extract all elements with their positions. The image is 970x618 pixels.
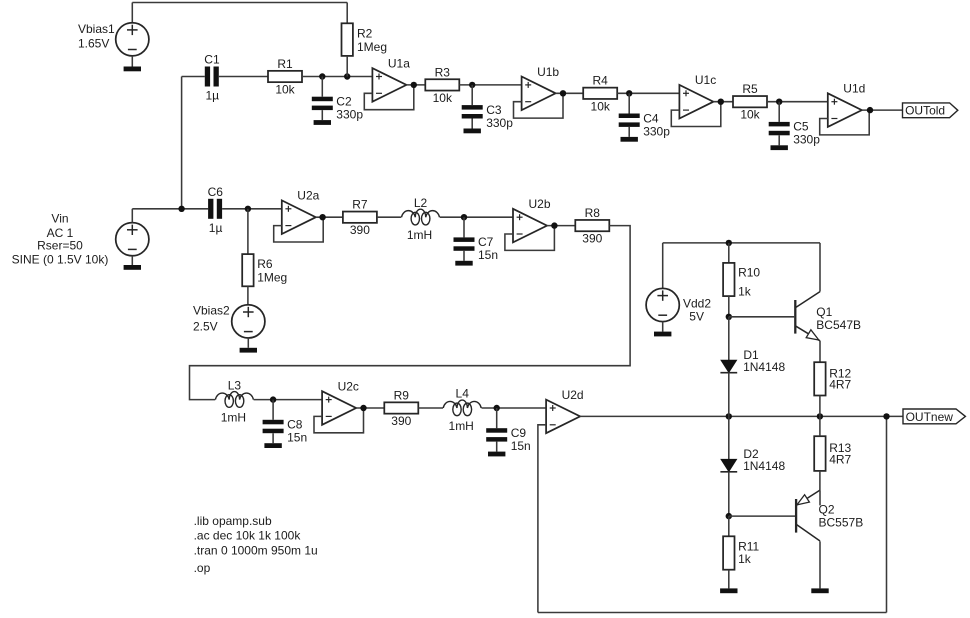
wire (580, 415, 903, 417)
wire (219, 76, 268, 78)
svg-text:Vbias2: Vbias2 (193, 304, 230, 318)
wire (662, 243, 664, 289)
capacitor C7 (454, 217, 499, 262)
wire (767, 101, 828, 103)
wire (728, 570, 730, 589)
inductor L3 (215, 378, 253, 424)
wire (728, 243, 730, 263)
node junction (411, 82, 417, 88)
resistor R3 (425, 65, 459, 105)
wire (819, 243, 821, 292)
svg-text:C1: C1 (204, 53, 220, 67)
wire (671, 102, 721, 127)
svg-text:C3: C3 (486, 103, 502, 117)
spice directive .lib (194, 514, 272, 528)
ground (488, 452, 505, 457)
wire (538, 425, 546, 613)
node OUTold (903, 103, 958, 118)
resistor R11 (723, 536, 759, 569)
svg-text:390: 390 (391, 414, 411, 428)
ground (264, 443, 281, 448)
svg-text:U2d: U2d (562, 388, 584, 402)
svg-text:Q2: Q2 (819, 503, 835, 517)
wire (274, 217, 324, 242)
transistor Q1 BC547B (795, 292, 861, 341)
voltage source Vdd2 (646, 288, 711, 323)
svg-text:C8: C8 (287, 418, 303, 432)
wire (459, 84, 521, 86)
wire (505, 226, 555, 251)
wire (316, 216, 343, 218)
svg-text:BC557B: BC557B (819, 516, 864, 530)
svg-text:4R7: 4R7 (829, 452, 851, 466)
svg-text:C9: C9 (511, 426, 527, 440)
svg-text:15n: 15n (287, 431, 307, 445)
wire (538, 612, 887, 614)
ground (720, 588, 737, 593)
capacitor C5 (769, 102, 821, 147)
ground (124, 265, 141, 270)
resistor R9 (384, 388, 418, 428)
spice directive .tran (194, 544, 318, 558)
svg-text:U1b: U1b (537, 65, 559, 79)
voltage source Vbias2 (193, 304, 265, 338)
node junction (776, 99, 782, 105)
wire (440, 216, 513, 218)
svg-text:.ac dec 10k 1k 100k: .ac dec 10k 1k 100k (194, 529, 302, 543)
wire (819, 541, 821, 588)
wire (222, 208, 282, 210)
wire (728, 416, 730, 459)
svg-text:5V: 5V (689, 309, 704, 323)
svg-text:330p: 330p (643, 124, 670, 138)
node junction (469, 82, 475, 88)
op-amp U1d (828, 82, 866, 127)
wire (131, 56, 133, 67)
capacitor C9 (486, 408, 531, 453)
node junction (817, 413, 823, 419)
node junction (319, 73, 325, 79)
wire (514, 93, 564, 118)
wire (728, 296, 730, 317)
resistor R4 (583, 74, 617, 114)
svg-text:L4: L4 (456, 387, 470, 401)
node junction (726, 240, 732, 246)
wire (728, 472, 730, 516)
wire (254, 399, 323, 401)
svg-text:390: 390 (582, 232, 602, 246)
wire (346, 56, 348, 77)
voltage source Vin (12, 212, 149, 267)
svg-text:1N4148: 1N4148 (743, 459, 785, 473)
wire (820, 110, 870, 135)
ground (124, 67, 141, 72)
resistor R13 (814, 436, 851, 471)
wire (247, 286, 249, 305)
node junction (560, 90, 566, 96)
svg-text:R8: R8 (585, 206, 601, 220)
wire (819, 341, 821, 362)
ground (771, 145, 788, 150)
svg-text:10k: 10k (433, 91, 453, 105)
svg-text:1.65V: 1.65V (78, 36, 109, 50)
node junction (344, 73, 350, 79)
capacitor C3 (462, 85, 514, 130)
svg-text:L3: L3 (228, 378, 242, 392)
svg-text:330p: 330p (336, 108, 363, 122)
svg-text:Vdd2: Vdd2 (683, 296, 711, 310)
op-amp U2c (322, 380, 359, 425)
wire (182, 76, 205, 78)
wire (364, 85, 414, 110)
wire (713, 101, 733, 103)
svg-text:330p: 330p (486, 116, 513, 130)
ground (654, 332, 671, 337)
svg-text:U1a: U1a (388, 56, 410, 70)
svg-text:C7: C7 (478, 235, 494, 249)
capacitor C2 (312, 77, 364, 122)
spice directive .ac (194, 529, 302, 543)
svg-text:Vbias1: Vbias1 (78, 22, 115, 36)
svg-text:1mH: 1mH (221, 410, 246, 424)
svg-text:OUTold: OUTold (905, 104, 945, 118)
op-amp U1a (372, 56, 410, 101)
wire (728, 317, 730, 361)
svg-text:15n: 15n (478, 248, 498, 262)
svg-text:C6: C6 (208, 185, 224, 199)
svg-text:BC547B: BC547B (816, 318, 861, 332)
wire (418, 407, 443, 409)
svg-text:R3: R3 (435, 65, 451, 79)
svg-text:L2: L2 (414, 196, 428, 210)
node junction (726, 314, 732, 320)
wire (547, 225, 575, 227)
wire (377, 216, 401, 218)
svg-text:R6: R6 (257, 257, 273, 271)
capacitor C6 (208, 185, 224, 235)
svg-text:R1: R1 (277, 57, 293, 71)
wire (302, 76, 372, 78)
wire (131, 209, 133, 223)
node junction (867, 107, 873, 113)
svg-text:U2b: U2b (529, 197, 551, 211)
svg-text:.op: .op (194, 561, 211, 575)
resistor R8 (575, 206, 609, 246)
svg-text:10k: 10k (275, 82, 295, 96)
svg-text:R2: R2 (357, 26, 373, 40)
svg-text:390: 390 (350, 223, 370, 237)
node junction (178, 206, 184, 212)
op-amp U2d (546, 388, 584, 433)
svg-text:1N4148: 1N4148 (743, 360, 785, 374)
wire (132, 208, 208, 210)
svg-text:R4: R4 (593, 74, 609, 88)
svg-text:U1d: U1d (843, 82, 865, 96)
svg-text:R10: R10 (738, 265, 760, 279)
diode D1 1N4148 (720, 348, 785, 374)
wire (556, 92, 584, 94)
node junction (551, 222, 557, 228)
svg-text:SINE (0 1.5V 10k): SINE (0 1.5V 10k) (12, 253, 109, 267)
voltage source Vbias1 (78, 22, 149, 56)
svg-text:Vin: Vin (51, 212, 68, 226)
wire (356, 407, 384, 409)
resistor R5 (733, 82, 767, 122)
wire (728, 373, 730, 417)
wire (314, 408, 364, 433)
wire (819, 490, 821, 505)
svg-text:1mH: 1mH (449, 419, 474, 433)
node junction (461, 214, 467, 220)
ground (455, 261, 472, 266)
node junction (319, 214, 325, 220)
node junction (726, 513, 732, 519)
ground (621, 137, 638, 142)
node junction (718, 99, 724, 105)
wire (482, 407, 547, 409)
wire (662, 322, 664, 332)
capacitor C4 (619, 93, 671, 138)
svg-text:1µ: 1µ (209, 221, 223, 235)
wire (819, 396, 821, 417)
node junction (626, 90, 632, 96)
wire (131, 256, 133, 265)
inductor L4 (443, 387, 481, 433)
wire (728, 516, 730, 536)
svg-text:2.5V: 2.5V (193, 320, 218, 334)
ground (240, 348, 257, 353)
node junction (270, 396, 276, 402)
svg-text:R5: R5 (742, 82, 758, 96)
svg-text:1mH: 1mH (407, 228, 432, 242)
wire (247, 209, 249, 254)
svg-text:15n: 15n (511, 439, 531, 453)
resistor R12 (814, 362, 851, 395)
svg-text:.lib opamp.sub: .lib opamp.sub (194, 514, 272, 528)
resistor R1 (268, 57, 302, 97)
op-amp U2a (282, 189, 320, 234)
wire (886, 416, 888, 612)
wire (729, 316, 794, 318)
svg-text:U2c: U2c (338, 380, 359, 394)
svg-text:C4: C4 (643, 111, 659, 125)
wire (819, 471, 821, 491)
wire (729, 515, 795, 517)
svg-text:OUTnew: OUTnew (906, 410, 954, 424)
wire (132, 2, 347, 4)
svg-text:1k: 1k (738, 552, 752, 566)
resistor R10 (723, 263, 760, 299)
wire (346, 3, 348, 24)
ground (464, 129, 481, 134)
svg-text:U2a: U2a (297, 189, 319, 203)
node junction (360, 405, 366, 411)
svg-text:R7: R7 (352, 198, 368, 212)
wire (617, 92, 679, 94)
node OUTnew (903, 409, 965, 424)
svg-text:1µ: 1µ (206, 89, 220, 103)
ground (314, 120, 331, 125)
wire (131, 3, 133, 23)
op-amp U2b (513, 197, 551, 242)
capacitor C1 (204, 53, 220, 103)
svg-text:.tran 0 1000m 950m 1u: .tran 0 1000m 950m 1u (194, 544, 318, 558)
wire (181, 77, 183, 209)
wire (819, 416, 821, 436)
svg-text:10k: 10k (740, 108, 760, 122)
wire (663, 242, 820, 244)
svg-text:C2: C2 (336, 95, 352, 109)
transistor Q2 BC557B (796, 490, 863, 541)
inductor L2 (402, 196, 440, 242)
node junction (245, 206, 251, 212)
node junction (726, 413, 732, 419)
resistor R7 (343, 198, 377, 238)
wire (190, 226, 631, 400)
svg-text:10k: 10k (591, 99, 611, 113)
svg-text:330p: 330p (793, 133, 820, 147)
svg-text:U1c: U1c (695, 73, 716, 87)
svg-text:Q1: Q1 (816, 305, 832, 319)
resistor R6 (242, 254, 287, 286)
diode D2 1N4148 (720, 447, 785, 473)
svg-text:C5: C5 (793, 120, 809, 134)
resistor R2 (342, 23, 388, 56)
op-amp U1b (522, 65, 560, 110)
wire (862, 109, 903, 111)
svg-text:1Meg: 1Meg (257, 271, 287, 285)
svg-text:4R7: 4R7 (829, 378, 851, 392)
op-amp U1c (679, 73, 716, 118)
svg-text:1Meg: 1Meg (357, 40, 387, 54)
wire (247, 338, 249, 348)
svg-text:Rser=50: Rser=50 (37, 238, 83, 252)
capacitor C8 (263, 400, 308, 445)
ground (811, 588, 828, 593)
node junction (883, 413, 889, 419)
svg-text:R9: R9 (394, 388, 410, 402)
node junction (494, 405, 500, 411)
wire (406, 84, 425, 86)
spice directive .op (194, 561, 211, 575)
svg-text:1k: 1k (738, 284, 752, 298)
